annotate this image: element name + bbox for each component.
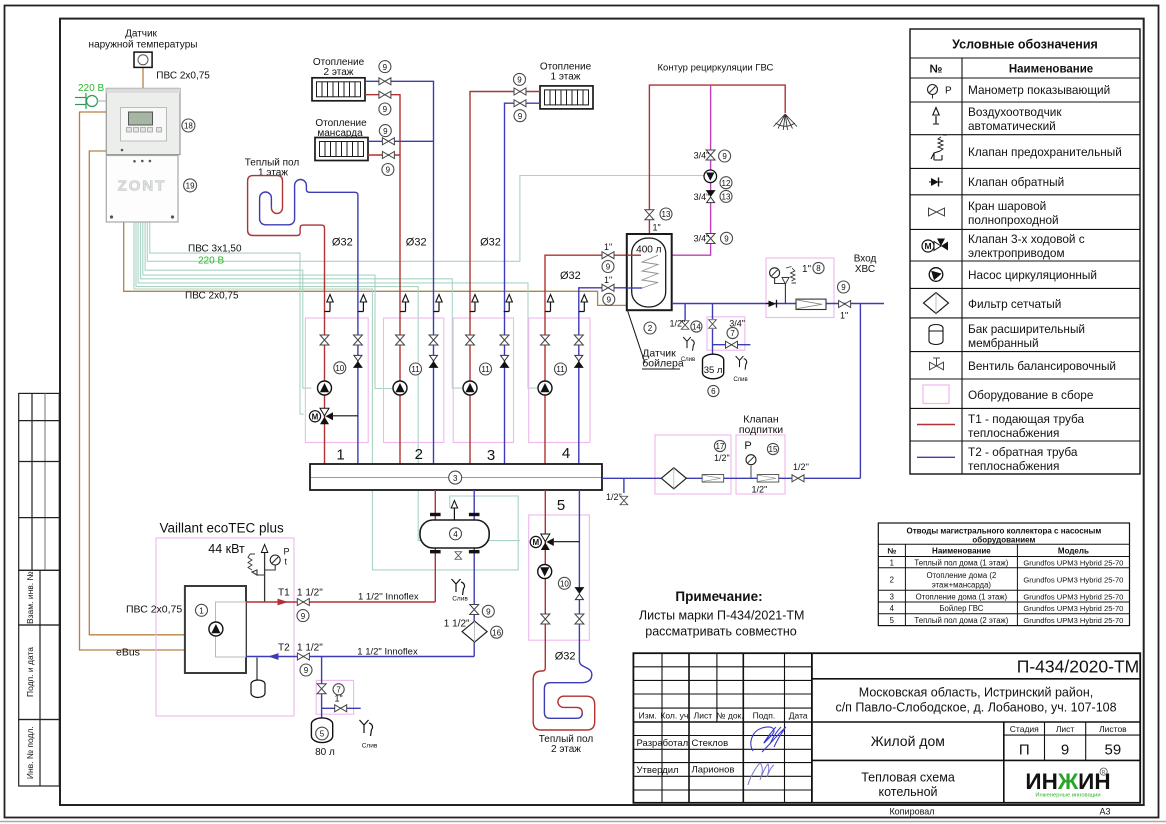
svg-text:2 этаж: 2 этаж	[324, 67, 354, 78]
svg-text:Р: Р	[945, 86, 952, 97]
svg-text:Ларионов: Ларионов	[692, 765, 735, 776]
svg-text:4: 4	[453, 530, 458, 539]
svg-text:eBus: eBus	[116, 647, 140, 659]
svg-text:9: 9	[606, 263, 611, 272]
svg-text:Бойлер ГВС: Бойлер ГВС	[939, 604, 983, 613]
svg-text:7: 7	[730, 329, 735, 338]
svg-text:19: 19	[186, 182, 195, 191]
svg-text:П: П	[1019, 742, 1030, 759]
svg-text:9: 9	[304, 666, 309, 675]
svg-text:3: 3	[453, 474, 458, 483]
svg-text:3/4": 3/4"	[694, 151, 710, 161]
svg-text:1": 1"	[802, 264, 812, 275]
svg-text:Московская область, Истринский: Московская область, Истринский район,	[859, 686, 1093, 700]
svg-text:1/2": 1/2"	[714, 453, 730, 463]
svg-text:А3: А3	[1099, 807, 1110, 817]
svg-text:1: 1	[336, 447, 344, 464]
svg-text:рассматривать совместно: рассматривать совместно	[645, 625, 796, 639]
svg-text:бойлера: бойлера	[642, 358, 684, 370]
svg-text:Бак расширительный: Бак расширительный	[968, 322, 1085, 336]
svg-text:2: 2	[648, 324, 653, 333]
svg-text:8: 8	[816, 264, 821, 273]
svg-text:5: 5	[557, 497, 565, 514]
svg-text:9: 9	[1061, 742, 1069, 759]
svg-text:1/2": 1/2"	[606, 492, 622, 502]
svg-text:1": 1"	[604, 275, 612, 285]
svg-text:16: 16	[492, 628, 501, 637]
svg-text:1 1/2": 1 1/2"	[297, 643, 323, 654]
svg-text:Клапан 3-х ходовой с: Клапан 3-х ходовой с	[968, 232, 1085, 246]
svg-text:№: №	[887, 547, 896, 556]
svg-text:ХВС: ХВС	[855, 264, 875, 275]
svg-text:Слив: Слив	[681, 357, 695, 363]
svg-text:9: 9	[724, 235, 729, 244]
svg-text:Условные обозначения: Условные обозначения	[952, 38, 1098, 52]
svg-text:18: 18	[184, 122, 193, 131]
svg-text:6: 6	[711, 387, 716, 396]
svg-text:Ø32: Ø32	[480, 237, 501, 249]
svg-text:Изм.: Изм.	[639, 711, 657, 721]
svg-text:Ø32: Ø32	[406, 237, 427, 249]
svg-text:Лист: Лист	[1056, 724, 1075, 734]
svg-text:2: 2	[415, 446, 423, 463]
svg-text:№ док.: № док.	[716, 711, 743, 721]
svg-text:подпитки: подпитки	[739, 424, 783, 436]
svg-text:1: 1	[890, 558, 894, 567]
svg-text:2: 2	[890, 575, 894, 584]
svg-text:Т1 - подающая труба: Т1 - подающая труба	[968, 412, 1085, 426]
svg-text:Утвердил: Утвердил	[637, 765, 679, 776]
svg-text:Взам. инв. №: Взам. инв. №	[25, 571, 35, 624]
svg-text:Подп. и дата: Подп. и дата	[25, 647, 35, 697]
svg-text:Vaillant ecoTEC plus: Vaillant ecoTEC plus	[159, 521, 284, 536]
svg-text:теплоснабжения: теплоснабжения	[968, 459, 1059, 473]
svg-text:теплоснабжения: теплоснабжения	[968, 426, 1059, 440]
svg-text:3/4": 3/4"	[694, 234, 710, 244]
svg-text:35 л: 35 л	[704, 365, 723, 376]
svg-text:Жилой дом: Жилой дом	[871, 733, 945, 749]
svg-text:1/2'': 1/2''	[793, 462, 809, 472]
svg-text:Grundfos UPM3 Hybrid 25-70: Grundfos UPM3 Hybrid 25-70	[1023, 604, 1123, 613]
svg-text:1 1/2": 1 1/2"	[444, 619, 470, 630]
svg-text:Т2: Т2	[278, 643, 290, 654]
svg-text:Кол. уч.: Кол. уч.	[660, 711, 690, 721]
svg-text:Оборудование в сборе: Оборудование в сборе	[968, 388, 1094, 402]
svg-text:Т1: Т1	[278, 588, 290, 599]
svg-text:Стеклов: Стеклов	[692, 738, 729, 749]
svg-text:Модель: Модель	[1058, 547, 1089, 556]
svg-text:Насос циркуляционный: Насос циркуляционный	[968, 268, 1097, 282]
svg-text:Отопление дома (1 этаж): Отопление дома (1 этаж)	[916, 592, 1008, 601]
svg-text:9: 9	[518, 112, 523, 121]
svg-text:3/4": 3/4"	[729, 318, 745, 328]
svg-text:Наименование: Наименование	[932, 547, 991, 556]
svg-text:1": 1"	[653, 223, 661, 233]
svg-text:Наименование: Наименование	[1009, 64, 1093, 76]
svg-text:ИНЖИН: ИНЖИН	[1025, 769, 1110, 794]
svg-text:Воздухоотводчик: Воздухоотводчик	[968, 105, 1062, 119]
svg-text:3: 3	[890, 592, 894, 601]
svg-text:11: 11	[556, 365, 565, 374]
svg-text:Клапан предохранительный: Клапан предохранительный	[968, 145, 1122, 159]
svg-text:9: 9	[383, 127, 388, 136]
svg-text:Кран шаровой: Кран шаровой	[968, 199, 1046, 213]
svg-text:Инв. № подл.: Инв. № подл.	[25, 726, 35, 779]
svg-text:Датчик: Датчик	[125, 29, 157, 40]
svg-text:1": 1"	[840, 311, 848, 321]
svg-text:1": 1"	[604, 242, 612, 252]
svg-text:P: P	[284, 547, 290, 557]
svg-text:Отводы магистрального коллекто: Отводы магистрального коллектора с насос…	[907, 527, 1102, 536]
svg-text:Инженерные инновации: Инженерные инновации	[1035, 793, 1100, 799]
svg-text:Дата: Дата	[789, 711, 808, 721]
svg-text:автоматический: автоматический	[968, 119, 1056, 133]
svg-text:полнопроходной: полнопроходной	[968, 213, 1059, 227]
svg-text:ПВС 2х0,75: ПВС 2х0,75	[156, 71, 210, 82]
svg-text:5: 5	[890, 616, 895, 625]
svg-text:электроприводом: электроприводом	[968, 246, 1065, 260]
svg-text:1/2": 1/2"	[670, 319, 686, 329]
svg-text:Вентиль балансировочный: Вентиль балансировочный	[968, 359, 1116, 373]
svg-text:Копировал: Копировал	[889, 807, 934, 817]
svg-text:Ø32: Ø32	[555, 650, 576, 662]
svg-text:ПВС 2х0,75: ПВС 2х0,75	[126, 604, 182, 616]
svg-text:1/2'': 1/2''	[752, 485, 768, 495]
svg-text:1 1/2'' Innoflex: 1 1/2'' Innoflex	[358, 592, 419, 603]
svg-text:R: R	[1102, 770, 1106, 776]
svg-text:3: 3	[487, 447, 495, 464]
svg-text:Манометр показывающий: Манометр показывающий	[968, 83, 1110, 97]
svg-text:Вход: Вход	[854, 254, 877, 265]
svg-text:Лист: Лист	[694, 711, 713, 721]
svg-text:14: 14	[692, 323, 701, 332]
svg-text:ПВС 3х1,50: ПВС 3х1,50	[188, 244, 242, 255]
svg-text:Теплый пол дома (1 этаж): Теплый пол дома (1 этаж)	[914, 558, 1008, 567]
svg-text:4: 4	[562, 445, 570, 462]
svg-text:Листов: Листов	[1099, 724, 1127, 734]
svg-text:Р: Р	[744, 440, 751, 452]
svg-text:Ø32: Ø32	[332, 237, 353, 249]
svg-text:1 1/2" Innoflex: 1 1/2" Innoflex	[357, 647, 418, 658]
svg-text:Фильтр сетчатый: Фильтр сетчатый	[968, 297, 1061, 311]
svg-text:Отопление дома (2: Отопление дома (2	[926, 571, 996, 580]
svg-text:5: 5	[320, 730, 325, 739]
svg-text:ПВС 2х0,75: ПВС 2х0,75	[185, 290, 239, 301]
svg-text:№: №	[930, 64, 943, 76]
svg-text:9: 9	[517, 76, 522, 85]
svg-text:2 этаж: 2 этаж	[551, 744, 581, 755]
svg-text:Слив: Слив	[733, 377, 747, 383]
svg-text:13: 13	[722, 193, 731, 202]
svg-text:Grundfos UPM3 Hybrid 25-70: Grundfos UPM3 Hybrid 25-70	[1023, 575, 1123, 584]
svg-text:9: 9	[607, 296, 612, 305]
svg-text:Примечание:: Примечание:	[675, 589, 762, 604]
svg-text:Т2 - обратная труба: Т2 - обратная труба	[968, 445, 1078, 459]
svg-text:400 л: 400 л	[636, 245, 661, 256]
svg-text:9: 9	[301, 612, 306, 621]
svg-text:Клапан обратный: Клапан обратный	[968, 175, 1064, 189]
svg-text:Grundfos UPM3 Hybrid 25-70: Grundfos UPM3 Hybrid 25-70	[1023, 592, 1123, 601]
svg-text:1 этаж: 1 этаж	[551, 72, 581, 83]
svg-text:1 этаж: 1 этаж	[258, 168, 288, 179]
svg-text:Теплый пол дома (2 этаж): Теплый пол дома (2 этаж)	[914, 616, 1008, 625]
svg-text:15: 15	[769, 445, 778, 454]
svg-text:Grundfos UPM3 Hybrid 25-70: Grundfos UPM3 Hybrid 25-70	[1023, 616, 1123, 625]
svg-text:M: M	[924, 241, 931, 251]
svg-text:59: 59	[1105, 742, 1122, 759]
svg-text:1 1/2": 1 1/2"	[297, 588, 323, 599]
svg-text:Контур рециркуляции ГВС: Контур рециркуляции ГВС	[658, 63, 774, 74]
svg-text:9: 9	[386, 166, 391, 175]
svg-text:оборудованием: оборудованием	[972, 536, 1035, 545]
svg-text:9: 9	[486, 608, 491, 617]
svg-text:9: 9	[383, 63, 388, 72]
svg-text:П-434/2020-ТМ: П-434/2020-ТМ	[1017, 657, 1140, 677]
svg-text:9: 9	[722, 152, 727, 161]
svg-text:наружной температуры: наружной температуры	[89, 40, 198, 51]
svg-text:12: 12	[722, 179, 731, 188]
svg-text:44 кВт: 44 кВт	[208, 542, 245, 556]
svg-text:1": 1"	[334, 694, 342, 704]
svg-text:3/4": 3/4"	[694, 192, 710, 202]
svg-text:9: 9	[383, 105, 388, 114]
svg-text:13: 13	[662, 210, 671, 219]
svg-text:Стадия: Стадия	[1010, 724, 1039, 734]
svg-text:Листы марки П-434/2021-ТМ: Листы марки П-434/2021-ТМ	[639, 609, 805, 623]
svg-text:Подп.: Подп.	[753, 711, 776, 721]
svg-text:мембранный: мембранный	[968, 336, 1039, 350]
svg-text:котельной: котельной	[878, 785, 937, 799]
svg-text:1: 1	[199, 607, 204, 616]
svg-text:с/п Павло-Слободское, д. Лобан: с/п Павло-Слободское, д. Лобаново, уч. 1…	[835, 701, 1116, 715]
svg-text:10: 10	[560, 580, 569, 589]
svg-text:10: 10	[335, 364, 344, 373]
svg-text:ZONT: ZONT	[118, 178, 167, 195]
svg-text:220 В: 220 В	[78, 83, 104, 94]
svg-text:11: 11	[481, 365, 490, 374]
svg-text:80 л: 80 л	[315, 747, 335, 758]
svg-text:этаж+мансарда): этаж+мансарда)	[932, 581, 992, 590]
svg-text:Слив: Слив	[362, 743, 378, 750]
svg-text:Ø32: Ø32	[560, 270, 581, 282]
svg-text:9: 9	[841, 283, 846, 292]
svg-text:Разработал: Разработал	[637, 738, 689, 749]
svg-text:Grundfos UPM3 Hybrid 25-70: Grundfos UPM3 Hybrid 25-70	[1023, 558, 1123, 567]
svg-text:11: 11	[411, 365, 420, 374]
svg-text:Слив: Слив	[452, 596, 468, 603]
svg-text:Тепловая схема: Тепловая схема	[861, 771, 955, 785]
svg-text:4: 4	[890, 604, 895, 613]
svg-text:17: 17	[716, 442, 725, 451]
svg-text:220 В: 220 В	[198, 255, 224, 266]
